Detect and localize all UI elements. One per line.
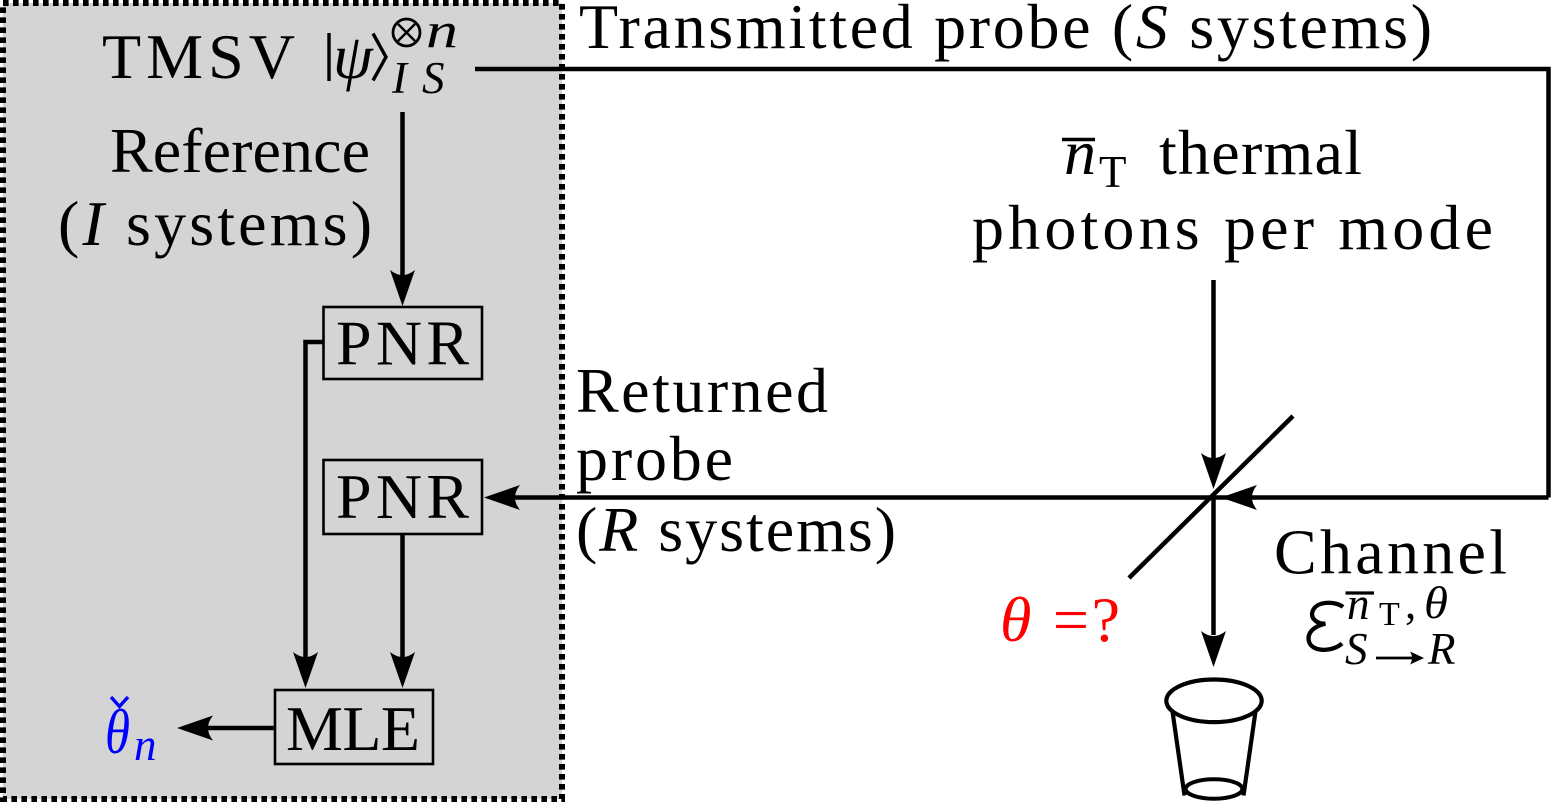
node: detection-stage dashed gray box xyxy=(3,3,562,799)
svg-text:PNR: PNR xyxy=(336,308,469,379)
svg-text:n: n xyxy=(1347,579,1370,629)
wire: beamsplitter to discard bucket xyxy=(1211,498,1216,636)
svg-text:n: n xyxy=(426,2,458,58)
svg-text:θ: θ xyxy=(1424,578,1448,628)
svg-text:TMSV: TMSV xyxy=(102,21,295,92)
node: arrowhead MLE output xyxy=(177,716,213,741)
wire: PNR2 bottom down to MLE xyxy=(400,534,405,658)
node: arrowhead PNR1-wire into MLE xyxy=(293,652,318,688)
svg-text:,: , xyxy=(1405,578,1416,628)
svg-text:MLE: MLE xyxy=(286,693,420,764)
wire: MLE output to theta estimate xyxy=(207,726,275,731)
svg-text:I: I xyxy=(391,53,409,103)
component: PNR detector box 2 xyxy=(324,460,483,534)
node: tensor product circle xyxy=(393,19,420,46)
svg-text:(R systems): (R systems) xyxy=(576,494,896,565)
node: right angle bracket of ket xyxy=(373,34,386,81)
wire: transmitted probe (top, right edge, returned line) xyxy=(475,67,1549,498)
node: caron accent xyxy=(111,697,128,707)
wire: PNR1 left side down to MLE xyxy=(306,342,325,658)
node: bar over superscript n xyxy=(1346,591,1375,594)
svg-text:Returned: Returned xyxy=(576,355,828,426)
node: arrowhead thermal into beamsplitter xyxy=(1201,453,1226,489)
label: channel map script E xyxy=(1309,603,1343,650)
svg-text:T: T xyxy=(1099,147,1127,197)
svg-text:probe: probe xyxy=(576,423,733,494)
component: beamsplitter diagonal xyxy=(1129,416,1293,578)
node: arrowhead into bucket xyxy=(1201,631,1226,667)
svg-text:S: S xyxy=(422,53,445,103)
svg-text:ψ: ψ xyxy=(333,21,374,92)
svg-text:S: S xyxy=(1345,624,1368,674)
svg-text:n: n xyxy=(1064,117,1096,188)
node: arrowhead PNR2-wire into MLE xyxy=(390,652,415,688)
svg-text:T: T xyxy=(1379,596,1400,633)
svg-text:R: R xyxy=(1427,624,1456,674)
node: arrowhead into PNR1 xyxy=(390,270,415,306)
svg-text:Transmitted probe (S systems): Transmitted probe (S systems) xyxy=(579,0,1432,62)
component: discard bucket left side xyxy=(1173,712,1185,796)
svg-text:photons per mode: photons per mode xyxy=(972,192,1493,263)
node: tensor product cross xyxy=(398,24,415,41)
node: ket bar xyxy=(327,33,330,81)
node: arrowhead into beamsplitter from right xyxy=(1221,485,1257,510)
svg-text:θ =?: θ =? xyxy=(1000,584,1120,655)
component: MLE box xyxy=(275,690,433,764)
svg-text:Channel: Channel xyxy=(1274,517,1507,588)
component: discard bucket top ellipse xyxy=(1166,680,1261,723)
component: PNR detector box 1 xyxy=(324,307,483,379)
component: discard bucket bottom ellipse xyxy=(1186,779,1243,798)
wire: thermal photons into beamsplitter xyxy=(1211,280,1216,460)
component: discard bucket right side xyxy=(1244,712,1256,796)
svg-text:n: n xyxy=(134,720,157,770)
label: subscript arrow xyxy=(1376,657,1412,660)
svg-text:Reference: Reference xyxy=(110,115,370,186)
wire: TMSV down to PNR1 xyxy=(400,112,405,278)
svg-text:PNR: PNR xyxy=(336,461,469,532)
svg-text:thermal: thermal xyxy=(1159,117,1362,188)
node: bar over n xyxy=(1062,138,1095,141)
node: arrowhead into PNR2 (returned probe) xyxy=(484,485,520,510)
